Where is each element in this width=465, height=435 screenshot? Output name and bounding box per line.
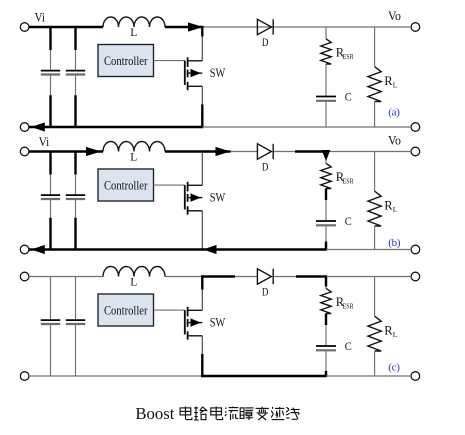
wire SW drain (c) — [201, 275, 203, 289]
wire R_L bottom (c) — [374, 351, 376, 376]
input terminal bottom (b) — [20, 245, 29, 254]
wire R_L bottom (a) — [374, 102, 376, 128]
output terminal top (c) — [411, 272, 420, 281]
inductor L (b) — [103, 142, 165, 152]
wire bottom rail current loop (c) — [201, 375, 327, 377]
wire top rail coil to SW corner (c) — [165, 276, 201, 278]
svg-text:D: D — [262, 160, 269, 174]
svg-text:Vo: Vo — [388, 8, 401, 23]
wire R_L bottom (b) — [374, 226, 376, 250]
wire bottom rail right (a) — [202, 126, 411, 128]
wire top rail output side (b) — [326, 151, 411, 153]
wire R_L top (c) — [374, 277, 376, 317]
caption glyph 6 — [256, 407, 269, 420]
resistor R_L (a) — [368, 67, 381, 102]
wire top rail input side (a) — [29, 26, 103, 28]
wire current to R_ESR node (b) — [295, 150, 327, 152]
input terminal top (b) — [20, 147, 29, 156]
input terminal bottom (a) — [20, 123, 29, 132]
capacitor Cin1 (c) — [50, 277, 52, 320]
svg-text:D: D — [262, 285, 269, 299]
capacitor Cin2 (a) — [74, 27, 76, 50]
caption glyph 8 — [286, 407, 299, 419]
wire diode cathode (c) — [273, 276, 296, 278]
arrow current into L (b) — [86, 147, 101, 156]
svg-text:L: L — [393, 205, 398, 214]
resistor R_ESR (c) — [321, 288, 331, 313]
svg-text:D: D — [262, 35, 269, 49]
diode D (c) — [257, 269, 273, 284]
svg-text:C: C — [345, 89, 352, 103]
wire SW source (a) — [201, 86, 203, 104]
wire current to R_ESR node (c) — [296, 275, 327, 277]
transistor SW (a) — [185, 57, 203, 90]
arrow current into SW node (a) — [188, 22, 203, 31]
output terminal top (a) — [411, 23, 420, 32]
diode D (b) — [257, 144, 273, 159]
wire top rail coil to SW corner (a) — [165, 26, 202, 28]
output terminal bottom (a) — [411, 123, 420, 132]
wire current SW node to diode (c) — [201, 275, 235, 277]
wire top rail coil to diode (b) — [165, 150, 231, 152]
svg-text:Controller: Controller — [104, 179, 148, 193]
wire top rail SW to output (a) — [202, 26, 411, 28]
svg-text:ESR: ESR — [343, 301, 354, 310]
svg-text:SW: SW — [210, 65, 226, 80]
arrow current into D (b) — [216, 147, 231, 156]
svg-text:Vi: Vi — [35, 10, 46, 25]
wire SW drain (b) — [201, 152, 203, 186]
wire C to bottom rail (b) — [325, 226, 327, 241]
transistor SW (b) — [185, 182, 203, 215]
caption glyph 1 — [180, 407, 192, 420]
svg-text:Vo: Vo — [388, 133, 401, 148]
svg-text:SW: SW — [210, 190, 226, 205]
wire bottom rail right (c) — [326, 375, 411, 377]
wire C to bottom rail (a) — [325, 102, 327, 127]
input terminal top (a) — [20, 23, 29, 32]
arrow current return (a) — [31, 122, 45, 131]
output terminal bottom (c) — [411, 372, 420, 381]
wire bottom rail left (c) — [29, 375, 202, 377]
input terminal top (c) — [20, 272, 29, 281]
capacitor Cin2 (c) — [75, 277, 77, 320]
arrow return at SW node (b) — [203, 245, 217, 254]
wire SW source (b) — [201, 211, 203, 250]
resistor R_ESR (b) — [321, 163, 331, 188]
svg-text:(b): (b) — [388, 237, 401, 249]
wire gate (c) — [154, 309, 185, 311]
svg-text:ESR: ESR — [343, 176, 354, 185]
wire top rail input side (b) — [29, 150, 103, 152]
wire top rail output side (c) — [326, 276, 411, 278]
capacitor Cin1 (a) — [49, 27, 51, 50]
controller box U (a) — [98, 45, 154, 77]
output terminal bottom (b) — [411, 245, 420, 254]
wire diode cathode (b) — [273, 151, 295, 153]
arrow return at terminal (b) — [31, 245, 45, 254]
controller box U (b) — [98, 169, 154, 201]
wire top rail input side (c) — [29, 276, 103, 278]
caption glyph 7 — [271, 407, 284, 420]
wire gate (a) — [154, 60, 185, 62]
svg-text:L: L — [130, 276, 137, 288]
svg-text:C: C — [345, 339, 352, 353]
wire R_ESR top (c) — [325, 277, 327, 287]
capacitor C (c) — [316, 345, 336, 347]
wire R_L top (a) — [374, 27, 376, 67]
wire gate (b) — [154, 184, 185, 186]
svg-text:C: C — [345, 214, 352, 228]
capacitor Cin2 (b) — [74, 152, 76, 175]
wire R_ESR to C (b) — [325, 189, 327, 201]
svg-text:L: L — [130, 27, 137, 39]
caption glyph 2 — [194, 407, 207, 421]
capacitor Cin1 (b) — [49, 152, 51, 175]
wire R_ESR top (b) — [325, 152, 327, 164]
wire SW drain (a) — [201, 26, 203, 37]
svg-text:(a): (a) — [388, 107, 400, 119]
wire bottom rail return (b) — [29, 248, 327, 250]
svg-text:Vi: Vi — [39, 134, 50, 149]
wire R_ESR to C (a) — [325, 64, 327, 96]
svg-text:SW: SW — [210, 315, 226, 330]
capacitor C (a) — [316, 96, 336, 98]
wire bottom rail right (b) — [326, 249, 411, 251]
svg-text:L: L — [393, 81, 398, 90]
resistor R_L (c) — [368, 316, 381, 351]
svg-text:L: L — [130, 151, 137, 163]
inductor L (c) — [103, 267, 165, 277]
wire R_ESR to C (c) — [325, 314, 327, 326]
arrow down into R_ESR (b) — [322, 150, 331, 161]
resistor R_ESR (a) — [321, 39, 331, 64]
wire bottom rail left (a) — [29, 126, 202, 128]
capacitor C (b) — [316, 220, 336, 222]
caption glyph 5 — [240, 408, 253, 420]
inductor L (a) — [103, 17, 165, 27]
wire SW source (c) — [201, 336, 203, 354]
wire C to bottom rail (c) — [325, 351, 327, 371]
svg-text:Controller: Controller — [104, 304, 148, 318]
diode D (a) — [257, 19, 273, 34]
output terminal top (b) — [411, 147, 420, 156]
input terminal bottom (c) — [20, 372, 29, 381]
caption glyph 3 — [211, 407, 223, 420]
svg-text:Controller: Controller — [104, 54, 148, 68]
svg-text:Boost: Boost — [135, 404, 174, 423]
svg-text:(c): (c) — [388, 362, 400, 374]
controller box U (c) — [98, 294, 154, 326]
svg-text:ESR: ESR — [343, 52, 354, 61]
caption glyph 4 — [225, 407, 238, 421]
wire R_ESR top (a) — [325, 27, 327, 39]
wire R_L top (b) — [374, 152, 376, 192]
transistor SW (c) — [185, 307, 203, 340]
resistor R_L (b) — [368, 191, 381, 226]
svg-text:L: L — [393, 330, 398, 339]
